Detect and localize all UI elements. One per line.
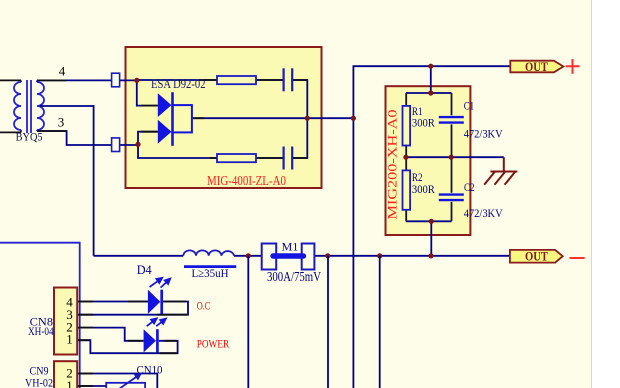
box MIG-400I-ZL-A0: [126, 47, 322, 188]
svg-text:300R: 300R: [412, 116, 435, 130]
node: positive rail to box: [428, 64, 433, 69]
minus sign: [570, 257, 585, 259]
node: rail at MIG200 drop: [428, 253, 433, 258]
svg-text:OUT: OUT: [525, 250, 549, 264]
node: rail at shunt left: [246, 253, 251, 258]
node: box output: [305, 116, 310, 121]
node: C1/C2 mid: [449, 155, 454, 160]
shunt M1: [262, 244, 277, 270]
node: R1/R2 mid: [403, 155, 408, 160]
diode module ESA D92-02: [158, 92, 192, 146]
power port OUT -: [510, 250, 563, 263]
capacitor top snubber: [284, 68, 293, 91]
capacitor C1: [451, 93, 453, 157]
svg-text:OUT: OUT: [525, 60, 549, 74]
resistor top snubber: [217, 76, 256, 84]
box MIG200-XH-A0: [386, 86, 471, 235]
wire: negative rail: [94, 255, 510, 257]
svg-text:CN10: CN10: [137, 363, 163, 377]
svg-text:3: 3: [58, 115, 65, 130]
wire: vertical feeders going down: [248, 256, 379, 388]
LED arrows upper: [148, 276, 172, 290]
transformer BYQ5: [14, 80, 44, 133]
LED arrows lower: [145, 316, 167, 328]
wire: diode anodes: [137, 80, 158, 144]
potentiometer CN10: [106, 383, 145, 388]
svg-text:MIG-400I-ZL-A0: MIG-400I-ZL-A0: [207, 174, 286, 189]
resistor bottom snubber: [217, 154, 256, 162]
svg-text:1: 1: [66, 332, 73, 347]
wire: center tap down to bottom rail: [40, 106, 94, 256]
resistor R2: [405, 157, 407, 221]
capacitor bottom snubber: [284, 147, 293, 170]
svg-text:M1: M1: [282, 240, 299, 254]
fuse terminal on pin4 wire: [112, 73, 120, 87]
node: box bottom: [429, 219, 434, 224]
capacitor C2: [451, 157, 453, 221]
LED D4 lower: [144, 329, 158, 352]
node: top rail entry: [428, 90, 433, 95]
wire: CN9 pin1 to CN10: [78, 385, 106, 387]
svg-text:D4: D4: [137, 263, 153, 277]
svg-text:POWER: POWER: [197, 336, 230, 350]
svg-text:300A/75mV: 300A/75mV: [267, 269, 321, 284]
svg-text:300R: 300R: [412, 182, 435, 196]
node: positive rail junction: [351, 116, 356, 121]
svg-text:4: 4: [59, 64, 66, 79]
wire: pin 4 to box: [37, 79, 137, 81]
svg-text:472/3KV: 472/3KV: [464, 126, 503, 140]
inductor L: [183, 250, 234, 255]
LED loop POWER: pin2 to anode, cathode to pin1: [78, 328, 177, 354]
wire: positive rail and vertical bus: [353, 66, 510, 388]
svg-text:472/3KV: 472/3KV: [464, 206, 503, 220]
node: rail mid: [377, 253, 382, 258]
LED loop O.C: pin4 to anode, cathode to pin3: [78, 302, 188, 315]
wire: top snubber chain: [137, 80, 307, 118]
wire: CN9 pin2 to CN10: [78, 374, 157, 388]
connector CN9 body: [54, 361, 77, 388]
svg-text:C2: C2: [464, 180, 475, 194]
wire: diode output to box edge: [192, 117, 354, 119]
svg-text:ESA D92-02: ESA D92-02: [151, 76, 206, 91]
power port OUT +: [510, 61, 563, 73]
wire: bottom snubber chain: [138, 118, 307, 158]
ground: [484, 157, 517, 185]
svg-text:O.C: O.C: [197, 301, 211, 313]
resistor R1: [405, 93, 407, 157]
svg-text:BYQ5: BYQ5: [16, 130, 43, 144]
wire: net from left edge down beside CN8: [0, 243, 80, 388]
wire: transformer left pins: [0, 80, 21, 132]
connector CN8 body: [54, 288, 77, 355]
wire: drop into MIG200 box: [430, 66, 432, 93]
svg-text:L≥35uH: L≥35uH: [192, 266, 229, 280]
fuse terminal on pin3 wire: [112, 138, 120, 152]
node: rail at shunt right: [325, 253, 330, 258]
svg-text:C1: C1: [464, 99, 475, 113]
LED D4 upper: [148, 290, 162, 314]
svg-text:MIG200-XH-A0: MIG200-XH-A0: [386, 110, 400, 220]
node: box input bottom: [135, 142, 140, 147]
svg-text:1: 1: [66, 378, 73, 388]
svg-text:XH-04: XH-04: [28, 324, 54, 338]
wire: pin 3 to box: [37, 131, 138, 145]
node: box input top: [134, 78, 139, 83]
svg-text:VH-02: VH-02: [25, 375, 53, 388]
plus sign: [566, 59, 580, 74]
MIG200 internals: rails: [406, 93, 504, 256]
